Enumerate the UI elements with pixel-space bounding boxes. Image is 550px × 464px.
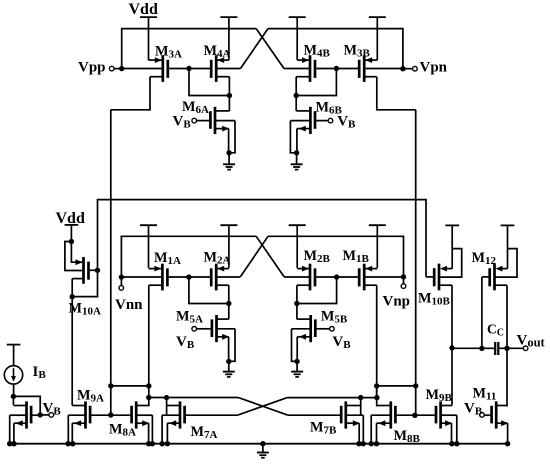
wire M7B source to rail: [358, 423, 360, 444]
transistor M12 gate bar: [488, 268, 491, 286]
transistor M7B source lead with arrow: [347, 422, 359, 424]
Vdd supply T above M3A: [140, 16, 157, 18]
wire cross diagonal D2' (Vnp rail to M2A bulk): [241, 236, 269, 276]
wire M10A drain down: [71, 279, 73, 406]
wire M6B source to ground: [296, 153, 298, 164]
current source IB supply T: [7, 344, 21, 346]
wire upper crossover row left: [149, 397, 238, 399]
transistor M3A drain lead: [150, 76, 162, 78]
node M8A source at rail: [146, 441, 151, 446]
node left net at drain row: [108, 383, 113, 388]
node mirror left: [227, 93, 232, 98]
transistor M1A bulk lead: [121, 276, 161, 278]
capacitor CC plates: [494, 342, 496, 355]
transistor M6A gate bar: [209, 111, 212, 129]
transistor M2A gate bar: [210, 268, 213, 286]
transistor M7A channel bar: [179, 401, 182, 428]
node M2B/M1B gates: [334, 274, 339, 279]
node mirror right (stage2): [294, 301, 299, 306]
terminal Vpn: [413, 66, 418, 71]
transistor M5A source lead with arrow: [218, 336, 229, 338]
wire M2A drain down: [228, 285, 230, 303]
transistor M6B bulk lead: [290, 120, 309, 122]
svg-text:Vnp: Vnp: [383, 294, 411, 310]
wire M6A source down: [228, 129, 230, 153]
transistor M9A gate lead: [91, 414, 111, 416]
svg-text:Vpp: Vpp: [78, 59, 106, 75]
transistor M4B channel bar: [309, 55, 312, 82]
transistor M6B source lead with arrow: [297, 128, 310, 130]
wire M5B bulk to source: [292, 329, 297, 362]
transistor M9A source lead with arrow: [72, 422, 84, 424]
wire Vpp rail left (y=28.6): [122, 29, 257, 69]
transistor M9A drain lead: [72, 405, 84, 407]
terminal Vnn: [120, 277, 122, 286]
transistor M10A drain lead: [72, 278, 82, 280]
transistor M2A channel bar: [215, 264, 218, 291]
wire M9B bulk to rail: [456, 415, 458, 444]
transistor M10B gate lead: [426, 276, 433, 278]
transistor M4A channel bar: [215, 55, 218, 82]
node right net at gate row: [412, 413, 417, 418]
transistor M11 gate lead: [484, 414, 490, 416]
wire M3A drain down-left: [111, 77, 150, 110]
transistor M7B channel bar: [344, 401, 347, 428]
Vdd supply T at M10A: [65, 224, 79, 226]
ground at M5A: [223, 371, 235, 373]
transistor M2A gate lead: [189, 276, 210, 278]
transistor M5B drain lead: [297, 318, 310, 320]
wire M12 drain down to output: [506, 285, 508, 348]
node M10B drain / CC left: [449, 345, 454, 350]
transistor M7A gate bar: [183, 406, 186, 424]
node IB drain: [11, 394, 16, 399]
transistor M2B gate lead: [316, 276, 336, 278]
transistor M10A bulk loop: [65, 242, 83, 271]
wire M5A source down: [228, 337, 230, 362]
transistor M3A source lead with arrow: [149, 59, 162, 61]
transistor M9B source lead with arrow: [442, 422, 452, 424]
current source IB arrow: [13, 368, 15, 378]
node M8A drain junction: [146, 395, 151, 400]
transistor M9B bulk lead: [442, 414, 457, 416]
transistor M7A bulk lead: [162, 414, 179, 416]
node M6B source: [294, 150, 299, 155]
transistor M10A gate bar: [87, 262, 90, 280]
node mirror right: [294, 93, 299, 98]
node Vnn junction: [119, 274, 124, 279]
wire M10A gate diode connection: [72, 270, 97, 296]
current source IB circle: [4, 366, 22, 384]
transistor M5B source lead with arrow: [297, 336, 310, 338]
wire M5B drain up: [296, 304, 298, 320]
node Vout junction: [504, 346, 509, 351]
transistor M1B channel bar: [363, 264, 366, 291]
transistor M11 gate bar: [490, 406, 493, 424]
wire M9B source to rail: [451, 423, 453, 444]
node Vpn junction: [400, 66, 405, 71]
wire M12 gate down to compensation node: [481, 277, 483, 348]
transistor M11 source lead with arrow: [497, 422, 507, 424]
wire M4B drain down: [295, 77, 297, 96]
ground at M6A: [223, 163, 235, 165]
wire M6B drain up: [295, 96, 297, 112]
svg-text:Vdd: Vdd: [129, 1, 158, 18]
transistor M6A channel bar: [214, 107, 217, 134]
wire M6B bulk to source: [290, 121, 296, 153]
wire M6A drain up: [228, 96, 230, 112]
wire ground stub: [262, 444, 264, 453]
wire M5B source down: [296, 337, 298, 362]
node M9A source at rail: [70, 441, 75, 446]
transistor M3B bulk lead: [365, 68, 403, 70]
transistor M10B gate bar: [433, 268, 436, 286]
node MB bulk at rail: [7, 441, 12, 446]
transistor M9B drain lead: [442, 405, 452, 407]
transistor M6B drain lead: [296, 110, 309, 112]
transistor M3A gate lead: [169, 68, 189, 70]
node M9B bulk at rail: [454, 441, 459, 446]
node M11 source at rail end: [505, 441, 510, 446]
transistor M5B gate lead: [317, 328, 330, 330]
wire M7A bulk corner to rail: [161, 415, 163, 444]
Vdd supply T above M10B: [445, 224, 459, 226]
transistor M1A source lead with arrow: [149, 268, 162, 270]
transistor M8B gate bar: [394, 406, 397, 424]
transistor M7B gate lead: [287, 414, 340, 416]
transistor M12 drain lead: [496, 284, 508, 286]
wire M1B drain down: [376, 285, 378, 406]
wire M6B source down: [296, 129, 298, 153]
node M5A source: [226, 359, 231, 364]
wire M7B bulk drop: [360, 398, 362, 416]
node M7A bulk tap: [164, 395, 169, 400]
transistor M7A drain lead: [167, 405, 179, 407]
transistor M11 drain lead: [497, 405, 507, 407]
transistor M12 channel bar: [493, 264, 496, 291]
bias transistor MB source lead with arrow: [14, 422, 26, 424]
transistor M9A gate bar: [89, 406, 92, 424]
node mirror left (stage2): [226, 301, 231, 306]
transistor M9B gate bar: [435, 406, 438, 424]
transistor M8A channel bar: [135, 401, 138, 428]
wire M8B source to rail: [376, 423, 378, 444]
wire M8B bulk to rail: [370, 415, 372, 444]
Vdd supply T above M4B: [289, 16, 306, 18]
terminal Vpp: [109, 66, 114, 71]
transistor M10B drain lead: [440, 284, 452, 286]
node M8B source at rail: [374, 441, 379, 446]
wire cross diagonal D2 (Vpn rail to M4A bulk): [241, 29, 269, 69]
wire upper crossover row right: [287, 397, 377, 399]
Vdd supply T above M4A: [220, 16, 237, 18]
Vdd supply T above M2A: [220, 224, 237, 226]
terminal VB at M5B: [330, 327, 335, 332]
transistor M6A gate lead: [197, 120, 209, 122]
transistor M2A source lead with arrow: [217, 268, 229, 270]
wire CC row right: [499, 347, 523, 349]
bias transistor MB gate bar: [30, 406, 33, 424]
transistor M1B gate lead: [337, 276, 358, 278]
transistor M1B drain lead: [365, 284, 377, 286]
wire M11 source to rail: [507, 423, 509, 444]
transistor M2A drain lead: [217, 284, 229, 286]
transistor M3B channel bar: [363, 55, 366, 82]
transistor M1B source lead with arrow: [365, 268, 377, 270]
Vdd supply T above M3B: [369, 16, 386, 18]
transistor M9B gate lead: [415, 414, 435, 416]
transistor M6A source lead with arrow: [216, 128, 229, 130]
terminal VB at M11: [480, 413, 485, 418]
node M1A drain row junction: [146, 383, 151, 388]
wire MB source to rail: [13, 423, 15, 444]
node ground tap: [260, 441, 265, 446]
Vdd supply T above M1A: [140, 224, 157, 226]
transistor M8B gate lead: [397, 414, 415, 416]
wire gates to mirror node left: [189, 69, 229, 96]
transistor M7A gate lead: [186, 414, 238, 416]
bias transistor MB drain lead: [13, 405, 25, 407]
transistor M2B drain lead: [297, 284, 309, 286]
node M1B drain row junction: [374, 383, 379, 388]
wire drain row right: [377, 385, 416, 387]
transistor M3A gate bar: [166, 60, 169, 78]
wire cross diagonal D1' (Vnn rail to M2B bulk): [256, 236, 284, 276]
transistor M5A bulk lead: [218, 328, 236, 330]
transistor M1B gate bar: [358, 268, 361, 286]
transistor M8A gate lead: [111, 414, 131, 416]
node M4B/M3B gates: [334, 66, 339, 71]
wire IB node to gate: [13, 396, 40, 414]
transistor M9A bulk lead: [68, 414, 84, 416]
transistor M9A channel bar: [84, 401, 87, 428]
transistor M6B gate lead: [316, 120, 328, 122]
transistor M6A drain lead: [216, 110, 229, 112]
transistor M4B drain lead: [296, 76, 309, 78]
transistor M8B source lead with arrow: [377, 422, 390, 424]
transistor M5B gate bar: [314, 319, 317, 337]
transistor M8B drain lead: [377, 405, 390, 407]
transistor M8B bulk lead: [371, 414, 390, 416]
wire gates to mirror node right (stage2): [297, 277, 337, 303]
terminal VB at M5A: [192, 327, 197, 332]
svg-text:Vout: Vout: [517, 333, 546, 350]
transistor M12 source lead with arrow: [507, 249, 509, 269]
transistor M1A channel bar: [161, 264, 164, 291]
transistor M5A channel bar: [215, 315, 218, 342]
node M7B source at rail: [356, 441, 361, 446]
wire Vnp rail right (y=236.3): [268, 236, 404, 277]
node M8B bulk at rail: [369, 441, 374, 446]
wire right tall net vertical (M3B drain net): [415, 110, 417, 416]
terminal VB (bias): [49, 413, 54, 418]
transistor M6B gate bar: [314, 111, 317, 129]
node MB source at rail: [11, 441, 16, 446]
terminal Vout: [523, 346, 528, 351]
node M7A bulk at rail: [159, 441, 164, 446]
wire M6A bulk to source: [229, 121, 235, 153]
svg-text:Vnn: Vnn: [115, 297, 143, 313]
node M3A/M4A gates: [186, 66, 191, 71]
transistor M4A bulk lead: [217, 68, 240, 70]
wire M5B source to ground: [296, 361, 298, 371]
transistor M8B channel bar: [389, 401, 392, 428]
wire Vpn rail right (y=28.6): [268, 29, 403, 69]
wire M3B drain down-right: [377, 77, 416, 110]
wire left tall net vertical (M3A drain net): [110, 110, 112, 415]
transistor M10A gate lead: [90, 269, 98, 271]
transistor M2B channel bar: [309, 264, 312, 291]
wire gates to mirror node right: [296, 69, 336, 96]
wire IB node to drain: [12, 396, 14, 405]
Vdd supply T above M2B: [289, 224, 306, 226]
wire CC row left: [452, 347, 494, 349]
wire M8A bulk to rail: [151, 415, 153, 444]
transistor M10B bulk loop: [440, 249, 462, 278]
transistor M5B channel bar: [309, 315, 312, 342]
transistor M3B drain lead: [365, 76, 377, 78]
terminal Vnp: [403, 277, 405, 284]
ground rail: [8, 443, 508, 445]
wire M4A drain down: [228, 77, 230, 96]
node M5B source: [294, 359, 299, 364]
transistor M8A source lead with arrow: [137, 422, 148, 424]
transistor M2A bulk lead: [217, 276, 240, 278]
transistor M8A drain lead: [137, 405, 149, 407]
node M8A bulk at rail: [150, 441, 155, 446]
wire crossover diagonal A: [238, 398, 287, 415]
node M10A source split: [69, 239, 74, 244]
transistor M5A drain lead: [218, 318, 229, 320]
bias transistor MB channel bar: [25, 401, 28, 428]
terminal VB at M6B: [328, 118, 333, 123]
transistor M5B bulk lead: [292, 328, 310, 330]
transistor M5A gate lead: [197, 328, 211, 330]
wire M8A source to rail: [148, 423, 150, 444]
wire M5A source to ground: [228, 361, 230, 371]
node right net at drain row: [413, 383, 418, 388]
transistor M1A gate lead: [169, 276, 189, 278]
node M10A drain-gate junction: [70, 294, 75, 299]
node M7A source at rail: [165, 441, 170, 446]
transistor M10B channel bar: [438, 264, 441, 291]
transistor M3B source lead with arrow: [365, 59, 377, 61]
terminal VB at M6A: [192, 118, 197, 123]
node M9A bulk at rail: [65, 441, 70, 446]
node Vnp junction: [401, 274, 406, 279]
wire M6A source to ground: [228, 153, 230, 164]
transistor M4A gate bar: [210, 60, 213, 78]
wire M7A bulk drop: [166, 398, 168, 416]
transistor M4B source lead with arrow: [297, 59, 309, 61]
transistor M3A channel bar: [161, 55, 164, 82]
node M7B bulk at rail: [361, 441, 366, 446]
transistor M7B bulk lead: [347, 414, 364, 416]
wire M7B bulk corner to rail: [362, 415, 364, 444]
transistor M3B gate lead: [336, 68, 358, 70]
wire M10B drain down: [451, 285, 453, 348]
wire gates to mirror node left (stage2): [189, 277, 229, 303]
node M6A source: [226, 150, 231, 155]
node M7B bulk tap: [358, 395, 363, 400]
node M10A gate: [95, 268, 100, 273]
wire M5A bulk to source: [229, 329, 235, 362]
node M9B source at rail: [449, 441, 454, 446]
transistor M7B gate bar: [340, 406, 343, 424]
transistor M4B bulk lead: [284, 68, 309, 70]
transistor M4B gate bar: [314, 60, 317, 78]
wire M5A drain up: [228, 304, 230, 320]
wire IB to bias transistor: [13, 384, 15, 396]
wire M2B drain down: [296, 285, 298, 303]
wire cross diagonal D1 (Vpp rail to M4B bulk): [256, 29, 284, 69]
transistor M12 bulk loop: [496, 249, 518, 278]
node left net at gate row: [108, 412, 113, 417]
wire M10 gate bias row: [98, 200, 427, 277]
wire M1A drain down: [148, 285, 150, 406]
transistor M2B source lead with arrow: [297, 268, 309, 270]
ground at M6B: [291, 163, 303, 165]
transistor M1A drain lead: [149, 284, 162, 286]
Vdd supply T above M12: [501, 224, 515, 226]
transistor M3A bulk lead: [122, 68, 162, 70]
transistor M4A gate lead: [189, 68, 210, 70]
transistor M8A gate bar: [130, 406, 133, 424]
wire M7A source to rail: [166, 423, 168, 444]
transistor M4B gate lead: [316, 68, 336, 70]
wire gate to VB terminal: [40, 414, 49, 416]
transistor M7A source lead with arrow: [167, 422, 179, 424]
node Vpp junction: [119, 66, 124, 71]
transistor M5A gate bar: [211, 319, 214, 337]
transistor M10B source lead with arrow: [451, 249, 453, 269]
transistor M12 gate lead: [482, 276, 489, 278]
wire crossover diagonal B: [238, 398, 287, 415]
transistor M8A bulk lead: [137, 414, 152, 416]
bias transistor MB bulk lead: [10, 414, 26, 416]
node VB gate-drain: [38, 412, 43, 417]
transistor M1B bulk lead: [365, 276, 403, 278]
bias transistor MB gate lead: [32, 414, 40, 416]
wire drain row left: [111, 385, 149, 387]
Vdd supply T above M1B: [369, 224, 386, 226]
transistor M9B channel bar: [439, 401, 442, 428]
wire M10B drain to M9B drain: [451, 348, 453, 405]
ground at M5B: [291, 371, 303, 373]
ground at rail center: [257, 452, 269, 454]
transistor M11 channel bar: [495, 401, 498, 428]
transistor M2B bulk lead: [284, 276, 309, 278]
transistor M10A channel bar: [82, 257, 85, 284]
node M8B drain junction: [374, 395, 379, 400]
wire M9A bulk to rail: [67, 415, 69, 444]
transistor M10A source lead with arrow: [71, 242, 76, 263]
transistor M3B gate bar: [358, 60, 361, 78]
wire M8B drain up link: [376, 386, 378, 398]
transistor M6A bulk lead: [216, 120, 235, 122]
wire M11 drain up: [506, 348, 508, 406]
transistor M1A gate bar: [166, 268, 169, 286]
transistor M4A source lead with arrow: [217, 59, 229, 61]
wire Vnn rail left (y=236.3): [121, 236, 256, 277]
wire MB bulk to rail: [9, 415, 11, 444]
wire M9A source to rail: [71, 423, 73, 444]
transistor M6B channel bar: [309, 107, 312, 134]
transistor M4A drain lead: [217, 76, 229, 78]
svg-text:Vpn: Vpn: [420, 59, 448, 75]
transistor M7B drain lead: [347, 405, 361, 407]
node M1A/M2A gates: [186, 274, 191, 279]
